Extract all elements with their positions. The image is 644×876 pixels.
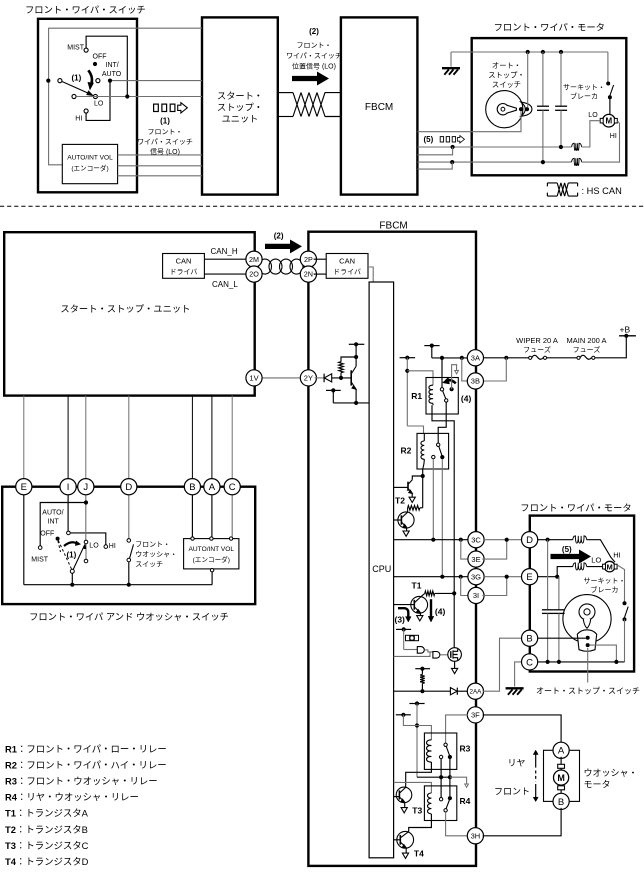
svg-text:B: B — [558, 797, 564, 808]
wire: motor ground rail (top) — [451, 51, 608, 53]
relay R3 box — [424, 733, 456, 769]
wire: MOSFET source to ground — [454, 661, 456, 668]
svg-text:R4：リヤ・ウオッシャ・リレー: R4：リヤ・ウオッシャ・リレー — [5, 790, 139, 804]
contact INT/AUTO (top switch) — [96, 79, 100, 83]
pin I (switch) — [60, 479, 76, 495]
svg-text:(5): (5) — [562, 545, 572, 554]
power stub (coil rail) — [400, 357, 416, 359]
wire: D to washer switch — [128, 493, 130, 538]
wire: auto-stop contact to ground rail — [527, 52, 529, 107]
wire: fuse link — [547, 357, 577, 359]
signal stub (2Y emitter) — [326, 389, 341, 391]
wire: 3G rail — [394, 576, 470, 578]
svg-text:(2): (2) — [274, 232, 284, 241]
relay R2 box — [417, 433, 449, 469]
svg-text:HI: HI — [610, 133, 617, 140]
capacitor C-a (top) — [542, 52, 544, 106]
svg-text:リヤ: リヤ — [508, 756, 526, 769]
pin 2Y — [300, 370, 316, 386]
wire: B to auto-stop — [536, 637, 586, 639]
svg-text:ブレーカ: ブレーカ — [570, 92, 598, 102]
svg-text:CAN_H: CAN_H — [211, 247, 238, 256]
relay R1 coil — [429, 385, 433, 403]
wire: CPU to T2 base — [394, 486, 408, 488]
svg-text:(エンコーダ): (エンコーダ) — [71, 163, 108, 173]
wire: R3 coil feed — [403, 715, 431, 740]
pin 3F — [467, 707, 483, 723]
svg-text:(1): (1) — [67, 550, 77, 559]
svg-text:R3: R3 — [460, 744, 471, 754]
transistor T4 (circle) — [397, 831, 414, 848]
contact OFF (bottom switch) — [67, 531, 71, 535]
contact MIST (bottom switch) — [38, 546, 42, 550]
wire: common to rail — [71, 573, 73, 584]
wire: 3E loop left — [461, 540, 470, 559]
signal stub (2AA pull) — [415, 668, 430, 670]
svg-text:ワイパ・スイッチ: ワイパ・スイッチ — [286, 51, 342, 61]
wire: C to encoder — [231, 493, 233, 537]
svg-text:ブレーカ: ブレーカ — [591, 585, 619, 595]
svg-text:ウオッシャ・: ウオッシャ・ — [135, 549, 177, 559]
wire: auto-stop label leader — [587, 648, 589, 683]
svg-text:1V: 1V — [249, 374, 258, 383]
wire: unit pin x=211.9 — [211, 396, 213, 481]
svg-text:T3: T3 — [412, 806, 422, 816]
motor M (bottom) — [604, 561, 615, 572]
svg-text:オート・: オート・ — [492, 61, 521, 71]
contact HI (bottom switch) — [104, 545, 108, 549]
wire: E to LO line — [557, 567, 573, 577]
svg-text:CAN_L: CAN_L — [212, 280, 238, 289]
capacitor C-1 (bottom) — [547, 540, 549, 610]
wire: washer switch to rail — [128, 562, 130, 585]
HS CAN legend symbol — [547, 183, 577, 196]
choke coil D (bottom) — [573, 536, 587, 543]
svg-text:(1): (1) — [72, 73, 82, 82]
wire: R2 coil to T2 node — [422, 469, 424, 476]
pin C (switch) — [224, 479, 240, 495]
svg-text:FBCM: FBCM — [365, 102, 393, 113]
svg-text:(2): (2) — [309, 27, 319, 36]
wire: J to LO contact — [85, 493, 87, 540]
wire: 3A to fuses — [482, 357, 528, 359]
svg-text:R1: R1 — [411, 391, 422, 401]
svg-text:ストップ・: ストップ・ — [488, 71, 524, 81]
svg-text:J: J — [83, 482, 88, 493]
washer motor box — [544, 750, 580, 801]
CPU box — [369, 282, 394, 858]
wire: 2P to CAN driver — [314, 258, 327, 260]
wire: washer B to 3H — [483, 808, 561, 836]
FBCM block (top) — [341, 17, 418, 194]
relay R1 actuate arrow — [446, 380, 456, 383]
pin 3A — [467, 350, 483, 366]
svg-text:AUTO/: AUTO/ — [42, 509, 63, 516]
svg-text:(1): (1) — [160, 117, 170, 126]
svg-text:3E: 3E — [471, 555, 480, 564]
wire: FBCM to motor HI 1 — [417, 161, 571, 163]
twisted pair rope (bottom) — [259, 259, 272, 274]
CAN driver box (FBCM) — [326, 254, 368, 279]
front wiper motor block (bottom) — [530, 516, 634, 672]
wire: R2 NO to 3C rail — [432, 459, 434, 540]
motor M (top) — [603, 114, 616, 127]
wire: B to encoder — [191, 493, 193, 537]
wire: CAN driver to CPU — [368, 267, 373, 282]
wire: CPU to T4 base — [394, 839, 401, 841]
svg-text:MAIN 200 A: MAIN 200 A — [566, 336, 606, 345]
wire: A to encoder — [211, 493, 213, 537]
washer motor M — [560, 757, 562, 765]
MOSFET Q-washer-common — [440, 654, 448, 656]
svg-text:フロント・ワイパ・モータ: フロント・ワイパ・モータ — [520, 500, 631, 514]
svg-text:C: C — [526, 657, 533, 668]
fuse MAIN 200A — [577, 356, 580, 359]
auto-stop contact dots (bottom) — [586, 636, 590, 640]
wire: unit pin x=68.1 — [67, 396, 69, 481]
choke coil E (bottom) — [573, 563, 587, 570]
pin 2AA — [467, 683, 483, 699]
svg-text:AUTO: AUTO — [102, 71, 122, 78]
signal stub (R3 coil feed) — [396, 714, 411, 716]
rotor dashed linkage — [58, 540, 71, 569]
pin C (motor) — [522, 654, 538, 670]
svg-text:LO: LO — [591, 555, 601, 564]
pin B (washer) — [553, 793, 569, 809]
resistor R-T1 — [425, 591, 435, 596]
contact MIST (top switch) — [84, 48, 88, 52]
auto-stop cam wheel (bottom) — [563, 595, 611, 643]
svg-text:T2：トランジスタB: T2：トランジスタB — [5, 822, 88, 836]
buffer gate G2 — [425, 650, 433, 652]
transistor T1 (circle) — [411, 596, 428, 613]
encoder box AUTO/INT VOL (top) — [62, 144, 117, 183]
svg-text:E: E — [21, 482, 27, 493]
svg-text:3B: 3B — [471, 377, 480, 386]
svg-text:ワイパ・スイッチ: ワイパ・スイッチ — [137, 137, 193, 147]
wire: rail to encoder — [211, 572, 213, 585]
encoder box AUTO/INT VOL (bottom) — [184, 539, 239, 569]
wire: R3 NC down — [449, 757, 451, 796]
fuse WIPER 20A — [529, 356, 532, 359]
wire: CAN driver to 2M — [204, 258, 249, 260]
svg-text:B: B — [189, 482, 195, 493]
hook arrow (contact chain) — [450, 777, 467, 784]
wire: MIST loop to LO line — [86, 36, 127, 96]
relay R1 box — [426, 378, 458, 415]
svg-text:OFF: OFF — [93, 54, 107, 61]
svg-text:2Y: 2Y — [304, 374, 313, 383]
wire: encoder out 2 — [118, 165, 202, 167]
arrow (3) at T1 — [398, 608, 408, 617]
svg-text:MIST: MIST — [31, 557, 48, 564]
svg-text:フューズ: フューズ — [523, 345, 551, 355]
encoder terminal bottom — [210, 569, 213, 572]
switch arm (top switch) — [62, 82, 92, 95]
FBCM block (bottom) — [308, 232, 476, 866]
wire: HI loop to INT/AUTO net — [86, 81, 110, 121]
pin 1V — [246, 370, 262, 386]
resistor R-T2 — [422, 476, 424, 508]
auto-stop contact skirt (bottom) — [577, 630, 596, 651]
pin 3H — [467, 828, 483, 844]
switch arm pivot (top switch) — [46, 79, 50, 83]
svg-text:M: M — [557, 773, 565, 783]
wiper-washer switch block — [2, 487, 255, 604]
wire: coil feed vertical — [406, 358, 408, 426]
svg-text:A: A — [209, 482, 216, 493]
svg-text:LO: LO — [89, 542, 99, 549]
svg-text:3I: 3I — [473, 591, 479, 600]
signal stub (osc) — [396, 628, 411, 630]
svg-text:ドライバ: ドライバ — [170, 267, 198, 277]
pin 2P — [300, 251, 316, 267]
wire: diode to base node — [332, 377, 351, 379]
svg-text:ドライバ: ドライバ — [333, 267, 361, 277]
wire: R2 coil feed — [407, 426, 423, 433]
wire: INT/AUTO to unit — [112, 80, 202, 82]
wire: 3F to washer A — [483, 715, 561, 744]
svg-text:OFF: OFF — [40, 530, 54, 537]
svg-text:CAN: CAN — [339, 257, 355, 266]
pin 2M — [246, 251, 262, 267]
svg-text:T3：トランジスタC: T3：トランジスタC — [5, 838, 89, 852]
wire: 2Y stage to CPU — [333, 402, 369, 404]
wire: 3E loop right — [482, 540, 506, 559]
relay R4 contact — [439, 798, 442, 801]
svg-text:3A: 3A — [471, 354, 480, 363]
diode D-2Y — [323, 374, 325, 383]
svg-text:(エンコーダ): (エンコーダ) — [193, 554, 230, 564]
black arrow (5) (bottom) — [551, 550, 590, 562]
pin 3E — [468, 551, 484, 567]
wire: 2N to CAN driver — [314, 273, 327, 275]
wire: OFF to HI link — [70, 533, 106, 545]
contact common (bottom switch) — [70, 569, 74, 573]
svg-text:フロント・ワイパ アンド ウオッシャ・スイッチ: フロント・ワイパ アンド ウオッシャ・スイッチ — [29, 609, 229, 623]
svg-text:A: A — [558, 746, 565, 757]
wire: CPU to T2c base — [394, 519, 402, 521]
wire: choke to HI contact — [587, 540, 615, 563]
auto-stop switch cam wheel (top) — [486, 91, 523, 128]
resistor R-2AA — [421, 669, 423, 675]
wire: encoder out 1 — [118, 154, 202, 156]
CAN driver box (unit) — [163, 254, 205, 279]
svg-text:R2：フロント・ワイパ・ハイ・リレー: R2：フロント・ワイパ・ハイ・リレー — [5, 758, 167, 772]
oscillator symbol — [406, 635, 419, 640]
svg-text:(5): (5) — [424, 135, 434, 144]
svg-text:モータ: モータ — [584, 778, 611, 791]
relay R1 contact — [440, 388, 443, 391]
svg-text:I: I — [67, 482, 70, 493]
wire: R4 pivot to 3H — [446, 812, 469, 836]
wire: 3I loop left — [461, 577, 470, 596]
svg-text:CPU: CPU — [372, 564, 391, 574]
wire: stub to contact chain — [416, 704, 418, 778]
transistor Q-2Y — [350, 370, 352, 385]
svg-text:(3): (3) — [395, 614, 406, 624]
start-stop unit block (bottom) — [4, 232, 255, 395]
wire: MIST link to J — [40, 503, 85, 546]
pin D — [522, 532, 538, 548]
svg-text:C: C — [229, 482, 236, 493]
wire: FBCM to motor HI 2 — [417, 162, 452, 169]
svg-text:R4: R4 — [460, 796, 471, 806]
wire: encoder out 3 — [118, 175, 202, 177]
relay R3 contact — [444, 743, 447, 746]
dashed separator — [0, 205, 644, 207]
svg-text:2M: 2M — [249, 255, 259, 264]
wire: 3F to R3 pivot — [446, 715, 469, 743]
wire: fuse to +B — [595, 336, 626, 358]
svg-text:フロント・ワイパ・スイッチ: フロント・ワイパ・スイッチ — [25, 2, 146, 16]
svg-text:T4：トランジスタD: T4：トランジスタD — [5, 854, 89, 868]
wire: FBCM to motor LO 2 — [417, 147, 452, 155]
front wiper motor block (top) — [472, 38, 627, 175]
contact OFF dot (top switch) — [93, 62, 97, 66]
svg-text:信号 (LO): 信号 (LO) — [150, 147, 180, 157]
svg-text:R1：フロント・ワイパ・ロー・リレー: R1：フロント・ワイパ・ロー・リレー — [5, 742, 167, 756]
pin J (switch) — [78, 479, 94, 495]
transistor T2 driver — [412, 476, 422, 480]
svg-text:2P: 2P — [304, 255, 313, 264]
pin 2O — [246, 266, 262, 282]
resistor R-2Y — [340, 373, 342, 378]
wire: 3I loop right — [482, 577, 506, 596]
wire: CAN driver to 2O — [204, 273, 249, 275]
wire: C rail — [536, 661, 625, 663]
wire: 2Y to diode — [315, 377, 324, 379]
choke coil LO (top) — [572, 143, 582, 150]
wire: R1 coil to T1 node — [432, 405, 454, 648]
svg-text:B: B — [526, 634, 532, 645]
wire: auto-stop sense to FBCM (5) — [417, 111, 521, 132]
pin E — [522, 569, 538, 585]
wire: choke to M LO brush — [587, 566, 604, 568]
wire: 3B tie to rail — [462, 358, 470, 381]
svg-text:3G: 3G — [471, 572, 481, 581]
wire: 3C to D — [484, 539, 521, 541]
svg-text:2AA: 2AA — [469, 688, 482, 695]
wire: 2AA to washer B return — [483, 638, 524, 691]
curved arrow (1) (top switch) — [88, 70, 92, 85]
buffer gate G1 — [404, 649, 418, 651]
signal marker (1) squares-arrow — [154, 104, 159, 111]
svg-text:E: E — [526, 572, 532, 583]
svg-text:AUTO/INT VOL: AUTO/INT VOL — [67, 154, 113, 161]
pin D (switch) — [121, 479, 137, 495]
front wiper switch block (top) — [38, 19, 137, 193]
wire: unit pin x=128.8 — [128, 396, 130, 481]
relay R4 coil — [428, 793, 432, 814]
wire: CPU to R4 coil — [394, 782, 432, 793]
pin E (switch) — [16, 479, 32, 495]
wire: unit pin x=85.8 — [85, 396, 87, 481]
circuit breaker (top) — [607, 52, 609, 82]
svg-text:MIST: MIST — [67, 45, 84, 52]
svg-text:フロント・: フロント・ — [148, 127, 183, 137]
wire: unit pin x=23.8 — [23, 396, 25, 481]
wire: unit pin x=192.4 — [191, 396, 193, 481]
svg-text:LO: LO — [94, 100, 104, 107]
svg-text:INT: INT — [48, 518, 60, 525]
svg-text:+B: +B — [620, 324, 631, 334]
svg-text:D: D — [526, 535, 533, 546]
ground symbol (wiper motor top) — [450, 52, 452, 67]
switch arm (bottom) — [73, 545, 84, 569]
circuit breaker (bottom) — [617, 565, 624, 602]
svg-text:2N: 2N — [304, 270, 313, 279]
relay R2 coil — [421, 441, 424, 459]
choke coil HI (top) — [572, 158, 582, 165]
svg-text:M: M — [605, 117, 612, 126]
wire: LO to lower contact — [85, 544, 87, 559]
wire: 3C rail — [394, 539, 470, 541]
wire: I to OFF contact — [67, 493, 69, 531]
wire: stub to 3A rail — [431, 346, 433, 358]
svg-text:R2: R2 — [401, 446, 412, 456]
svg-text:T2: T2 — [395, 496, 405, 506]
wire: R2 NC to 3G rail — [441, 459, 443, 577]
start-stop unit block (top) — [202, 17, 278, 194]
transistor T2 (circle) — [398, 512, 414, 528]
svg-text:スイッチ: スイッチ — [135, 559, 163, 569]
svg-text:CAN: CAN — [176, 257, 192, 266]
wire: unit pin x=232.2 — [231, 396, 233, 481]
svg-text:フロント: フロント — [494, 784, 530, 797]
wire: common rail — [24, 584, 212, 586]
power +B terminal — [619, 335, 636, 337]
black arrow (2) (bottom) — [266, 240, 302, 252]
svg-text:位置信号 (LO): 位置信号 (LO) — [292, 62, 336, 72]
transistor T3 (circle) — [396, 787, 412, 803]
svg-text:R3：フロント・ウオッシャ・リレー: R3：フロント・ウオッシャ・リレー — [5, 774, 158, 788]
contact HI (top switch) — [84, 109, 88, 113]
svg-text:T1: T1 — [412, 581, 422, 591]
svg-text:3F: 3F — [471, 711, 480, 720]
svg-text:HI: HI — [109, 543, 116, 550]
pin A (washer) — [553, 742, 569, 758]
front washer switch — [127, 539, 131, 543]
svg-text:3H: 3H — [471, 832, 481, 841]
pin 3G — [468, 569, 484, 585]
wire: R1 coil feed — [407, 371, 433, 385]
pin 3B — [467, 373, 483, 389]
wire: D to choke — [536, 539, 573, 541]
wire: R1 contact to R2 pivot — [438, 402, 446, 443]
svg-text:フロント・: フロント・ — [135, 539, 170, 549]
wire: E to common rail — [23, 493, 25, 584]
svg-text:: HS CAN: : HS CAN — [582, 186, 622, 196]
pin A (switch) — [204, 479, 220, 495]
pin 2N — [300, 266, 316, 282]
svg-text:スタート・ストップ・ユニット: スタート・ストップ・ユニット — [60, 301, 190, 315]
svg-text:WIPER 20 A: WIPER 20 A — [516, 336, 558, 345]
wire: CPU to T3 base — [394, 796, 400, 798]
svg-text:LO: LO — [588, 112, 598, 119]
svg-text:フューズ: フューズ — [573, 345, 601, 355]
wire: 3A rail — [432, 357, 470, 359]
rotor pivot dot (bottom switch) — [56, 537, 60, 541]
relay R3 coil — [427, 740, 432, 762]
black arrow (2) (top) — [293, 72, 329, 84]
svg-text:フロント・ワイパ・モータ: フロント・ワイパ・モータ — [494, 20, 605, 34]
wire: 3B tie outside — [482, 358, 506, 381]
wire: R3 NO down — [440, 759, 442, 798]
wire: CPU to T1 base — [394, 604, 415, 606]
encoder terminals top — [191, 537, 194, 540]
svg-text:HI: HI — [613, 551, 621, 560]
